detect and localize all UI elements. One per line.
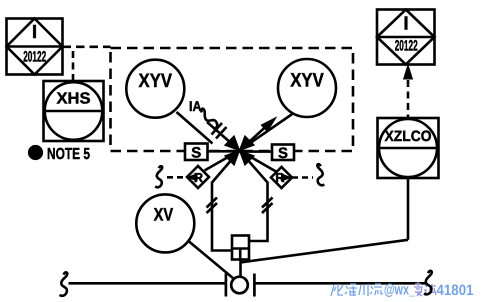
svg-text:I: I xyxy=(403,14,408,35)
instrument square I 20122 (top-left) xyxy=(7,19,63,75)
instrument square I 20122 (top-right) xyxy=(377,10,435,65)
actuator box xyxy=(232,236,249,260)
reset diamond R (right) xyxy=(271,167,292,188)
solenoid valve bubble XYV (right) xyxy=(278,59,336,117)
svg-text:XHS: XHS xyxy=(57,91,91,108)
wire XZLCO down xyxy=(407,178,410,240)
wire XYV-right to valve center xyxy=(240,114,294,151)
char 化 xyxy=(331,284,343,296)
dashed wire from R-left xyxy=(167,176,187,179)
wire XV to valve xyxy=(189,242,234,279)
arrowhead up xyxy=(404,65,413,79)
wire valve center to solenoid S (left) xyxy=(208,150,240,153)
svg-text:R: R xyxy=(194,170,204,185)
reset diamond R (left) xyxy=(187,166,210,188)
valve center arrowhead cluster xyxy=(225,136,254,165)
wire valve center to solenoid S (right) xyxy=(240,150,273,153)
wire XYV-left to solenoid S xyxy=(177,112,213,144)
solenoid box S (right) xyxy=(272,145,294,161)
wire valve center to reset R (right) xyxy=(240,151,277,172)
svg-text:S: S xyxy=(191,144,201,161)
svg-text:IA: IA xyxy=(189,98,202,114)
svg-text:@wx_: @wx_ xyxy=(384,282,415,299)
char 虔 xyxy=(414,282,422,296)
hand switch XHS xyxy=(44,81,104,141)
main pipe (right segment) xyxy=(254,282,425,285)
wire valve center to actuator (left branch) xyxy=(212,151,240,251)
svg-text:XV: XV xyxy=(154,205,174,225)
wire actuator to XZLCO line xyxy=(242,240,409,262)
ball valve on pipe xyxy=(226,274,255,297)
solenoid box S (left) xyxy=(185,144,208,161)
double slash on right branch xyxy=(262,198,273,208)
svg-text:NOTE 5: NOTE 5 xyxy=(47,146,90,163)
pipe break squiggle (right) xyxy=(424,271,432,294)
double slash on left branch xyxy=(207,198,218,208)
svg-text:XYV: XYV xyxy=(139,70,173,92)
position switch bubble XV xyxy=(136,194,194,252)
dashed wire from R-right xyxy=(292,176,313,179)
IA supply break squiggle xyxy=(197,108,219,130)
flow arrow to XYV-right xyxy=(240,127,267,151)
limit switch XZLCO xyxy=(378,118,439,178)
svg-text:XZLCO: XZLCO xyxy=(385,128,432,145)
break squiggle (right R) xyxy=(317,164,324,185)
svg-text:I: I xyxy=(32,22,37,43)
note bullet xyxy=(28,145,43,160)
solenoid valve bubble XYV (left) xyxy=(126,60,184,118)
char 诚 xyxy=(424,284,436,296)
svg-text:20122: 20122 xyxy=(23,49,46,66)
dashed signal wire (square to dashed box) xyxy=(63,45,111,48)
svg-text:41801: 41801 xyxy=(437,282,474,299)
dashed signal wire (down to XHS) xyxy=(72,51,75,81)
wire valve center to actuator (right branch) xyxy=(240,151,268,242)
svg-text:20122: 20122 xyxy=(395,38,418,55)
char 流 xyxy=(370,284,383,295)
svg-text:S: S xyxy=(278,145,288,162)
svg-text:R: R xyxy=(275,170,285,185)
watermark xyxy=(331,284,383,296)
double slash on IA wire xyxy=(212,123,223,135)
break squiggle (left R) xyxy=(155,166,162,187)
main pipe (left segment) xyxy=(69,282,226,285)
pipe break squiggle (left) xyxy=(60,272,68,295)
char 海 xyxy=(345,284,357,296)
IA supply wire to valve center xyxy=(207,122,240,151)
wire valve center to reset R (left) xyxy=(205,151,240,171)
stem wire to valve xyxy=(239,260,242,277)
dashed enclosure box xyxy=(111,48,354,151)
dashed wire XZLCO up xyxy=(407,80,410,118)
svg-text:XYV: XYV xyxy=(290,70,324,92)
char 川 xyxy=(359,284,368,296)
